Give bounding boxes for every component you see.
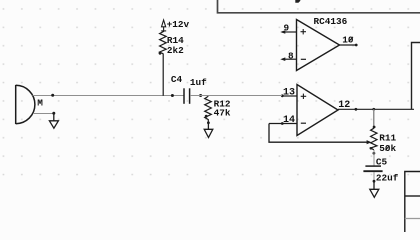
svg-text:13: 13 [283, 87, 295, 98]
pin 8 [280, 50, 296, 61]
ground (R12) [204, 123, 213, 138]
svg-text:14: 14 [283, 115, 295, 126]
wiper arrow into R11 [367, 140, 372, 144]
svg-text:+12v: +12v [167, 19, 190, 30]
wire right edge net (output going offscreen) [412, 43, 420, 110]
connector box gray rung [405, 218, 420, 220]
pin 13 [281, 87, 297, 98]
plus symbol U1b [301, 94, 307, 99]
minus symbol U1b [301, 122, 306, 124]
pin 12 output wire [338, 100, 414, 111]
minus symbol U1a [301, 58, 306, 60]
wire feedback pin14 to R11 wiper [269, 124, 370, 143]
svg-text:R11: R11 [379, 132, 396, 143]
R14 pin dot [159, 52, 162, 55]
wire mic output [33, 95, 184, 97]
svg-text:47k: 47k [214, 108, 231, 119]
svg-text:C4: C4 [171, 74, 183, 85]
svg-text:12: 12 [338, 100, 350, 111]
svg-text:C5: C5 [376, 157, 388, 168]
R11 body end dot [370, 147, 373, 150]
microphone M [16, 85, 35, 124]
pin 9 [280, 22, 296, 33]
svg-text:RC4136: RC4136 [314, 16, 348, 27]
svg-text:2k2: 2k2 [167, 45, 184, 56]
plus symbol U1a [301, 29, 307, 34]
ground (C5) [370, 181, 379, 197]
R12 pin dot [207, 121, 210, 124]
wire R14 to signal [162, 54, 164, 96]
wire top feedback net [218, 0, 420, 13]
junction mic pin [51, 94, 54, 97]
junction mic ground pin [52, 112, 55, 115]
C5 pin dot [373, 180, 376, 183]
svg-text:9: 9 [284, 22, 290, 33]
op-amp partial triangle tip (cut off at top) [295, 0, 300, 3]
wire C4 to pin13 [190, 95, 282, 97]
pin 10 output [340, 34, 358, 46]
R11 bottom pin dot [373, 152, 376, 155]
grid dots [0, 0, 420, 190]
pin 14 [269, 115, 297, 126]
op-amp U1 second section (pins 13,14,12) [297, 85, 338, 136]
potentiometer R11 [371, 128, 377, 150]
ground (mic) [49, 113, 58, 128]
R12 body end dot [205, 115, 208, 118]
op-amp U1 RC4136 (pins 9,8,10) [297, 20, 340, 71]
wire output to R11 [373, 109, 375, 127]
svg-text:50k: 50k [379, 143, 396, 154]
wire mic lower terminal [33, 112, 54, 114]
svg-text:M: M [37, 97, 43, 108]
+12v power symbol [161, 20, 166, 32]
capacitor C5 [363, 166, 382, 171]
svg-text:1uf: 1uf [190, 77, 207, 88]
wire C5 to ground [373, 172, 375, 182]
wire R11 to C5 [373, 150, 375, 166]
C4 pin dots [171, 94, 174, 97]
capacitor C4 [184, 88, 190, 104]
svg-text:22uf: 22uf [376, 172, 399, 183]
resistor R12 [205, 96, 212, 123]
resistor R14 [160, 32, 167, 54]
connector box bottom right [405, 172, 420, 233]
svg-text:10: 10 [342, 34, 354, 45]
R11 top pin dot [373, 126, 376, 129]
svg-text:8: 8 [288, 50, 294, 61]
